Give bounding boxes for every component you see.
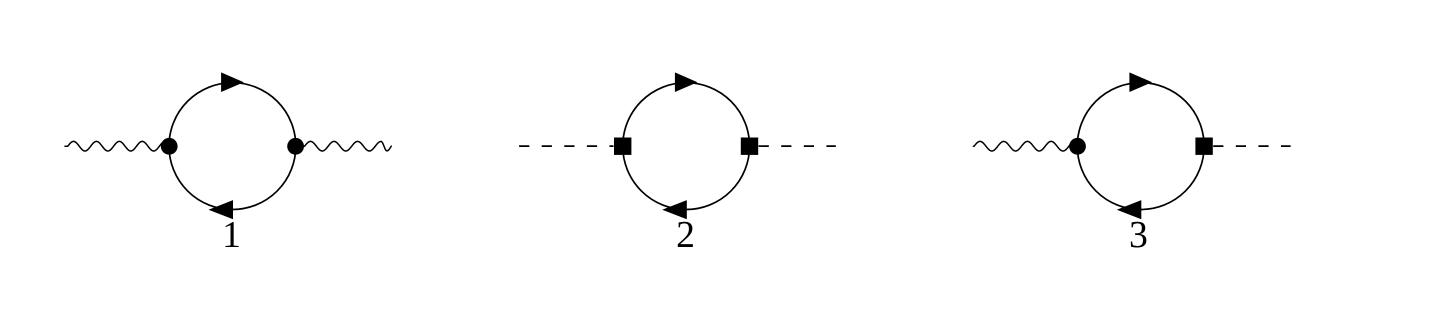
photon line (wavy), left external leg of diagram 1 xyxy=(65,141,166,151)
bottom arrow (fermion direction, points left) loop 1 xyxy=(209,200,234,219)
top arrow (fermion direction, points right) loop 3 xyxy=(1129,72,1152,92)
vertex dot (left) xyxy=(161,138,178,155)
photon line (wavy), left external leg of diagram 3 xyxy=(973,141,1076,151)
fermion loop 3 (circle) xyxy=(1077,83,1204,210)
vertex square (left) xyxy=(614,138,631,155)
top arrow (fermion direction, points right) loop 1 xyxy=(221,72,244,92)
bottom arrow (fermion direction, points left) loop 3 xyxy=(1117,200,1142,219)
vertex square (right) xyxy=(741,138,758,155)
scalar line (dashed) xyxy=(519,145,613,147)
vertex dot (left) xyxy=(1069,138,1086,155)
svg-text:1: 1 xyxy=(222,214,241,256)
scalar line (dashed) xyxy=(759,145,836,147)
svg-text:2: 2 xyxy=(676,214,695,256)
fermion loop 2 (circle) xyxy=(623,83,750,210)
fermion loop 1 (circle) xyxy=(169,83,296,210)
vertex square (right) xyxy=(1195,138,1212,155)
bottom arrow (fermion direction, points left) loop 2 xyxy=(662,200,687,219)
vertex dot (right) xyxy=(287,138,304,155)
scalar line (dashed) xyxy=(1213,145,1290,147)
wire: stub from right dot to wave start xyxy=(299,145,305,147)
svg-text:3: 3 xyxy=(1129,214,1148,256)
top arrow (fermion direction, points right) loop 2 xyxy=(675,72,698,92)
photon line (wavy), right external leg of diagram 1 xyxy=(305,141,392,151)
